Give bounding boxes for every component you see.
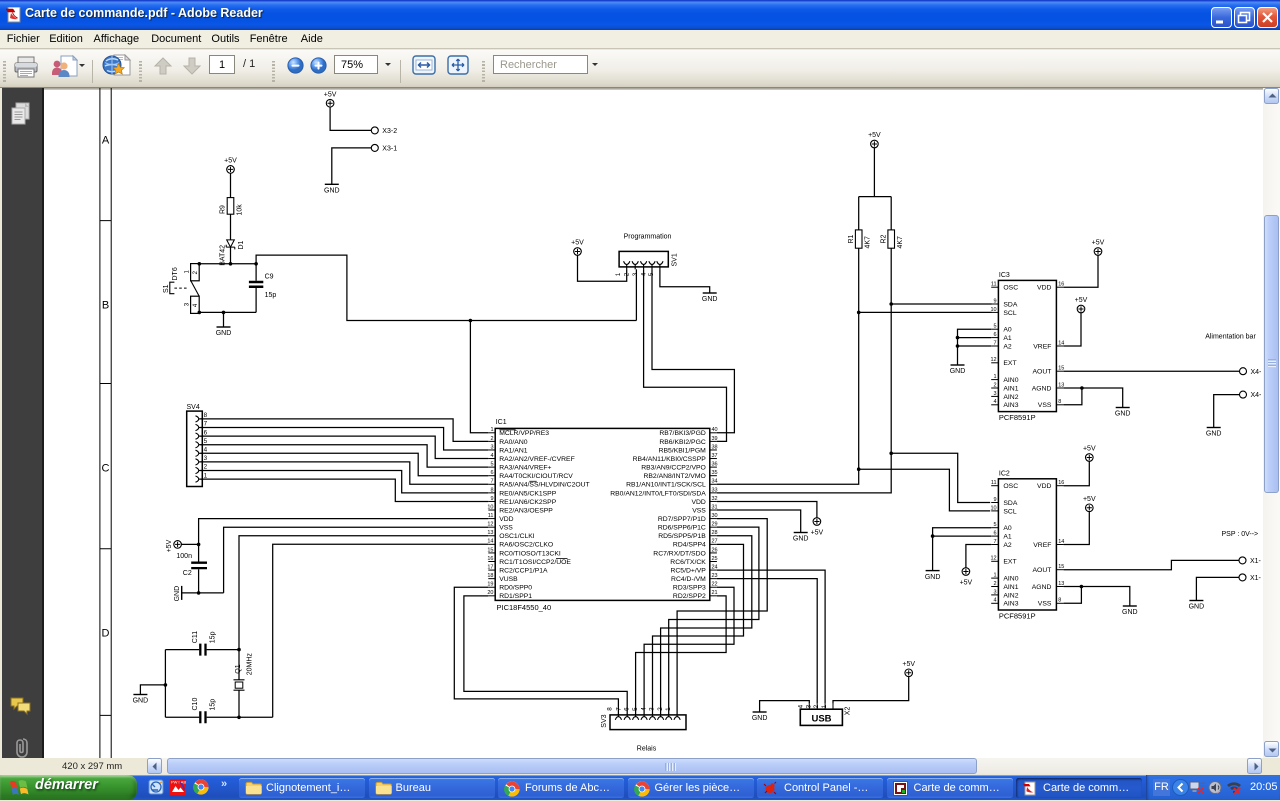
svg-text:15: 15 (1058, 366, 1064, 372)
wire switch top node (198, 262, 257, 266)
svg-text:RA5/AN4/SS/HLVDIN/C2OUT: RA5/AN4/SS/HLVDIN/C2OUT (499, 482, 590, 489)
vertical scrollbar (1263, 88, 1280, 758)
svg-text:3: 3 (490, 444, 493, 450)
svg-text:SV4: SV4 (187, 404, 200, 411)
wire C2 plates (198, 544, 200, 593)
svg-text:+5V: +5V (166, 539, 173, 552)
ground (IC3 A pins) (950, 365, 966, 375)
svg-text:1: 1 (204, 472, 208, 479)
svg-text:X3-1: X3-1 (382, 146, 397, 153)
power +5V (C2) (166, 539, 181, 552)
ground (X3) (324, 184, 340, 194)
wire C11 (165, 648, 240, 652)
svg-text:2: 2 (994, 581, 997, 587)
svg-text:PSP : 0V-->: PSP : 0V--> (1222, 531, 1259, 538)
svg-text:GND: GND (324, 188, 340, 195)
svg-text:AIN0: AIN0 (1003, 576, 1018, 583)
svg-text:Alimentation bar: Alimentation bar (1205, 334, 1256, 341)
svg-text:7: 7 (994, 340, 997, 346)
wire to ground (S1) (223, 312, 225, 327)
svg-text:RC1/T1OSI/CCP2/UOE: RC1/T1OSI/CCP2/UOE (499, 559, 571, 566)
svg-text:A: A (102, 135, 110, 147)
diode D1 (220, 240, 246, 266)
wire USB D- pin3 (717, 579, 817, 704)
svg-text:RB3/AN9/CCP2/VPO: RB3/AN9/CCP2/VPO (641, 465, 706, 472)
svg-text:35: 35 (712, 470, 718, 476)
svg-text:AIN3: AIN3 (1003, 601, 1018, 608)
svg-text:GND: GND (174, 586, 181, 602)
svg-text:C: C (102, 463, 110, 475)
svg-text:PW LAB: PW LAB (171, 780, 186, 785)
svg-text:5: 5 (204, 438, 208, 445)
svg-text:27: 27 (712, 539, 718, 545)
svg-text:2: 2 (204, 464, 208, 471)
ground (C2) (174, 586, 182, 602)
svg-text:A2: A2 (1003, 542, 1012, 549)
svg-text:DT6: DT6 (172, 267, 179, 280)
wire MCLR net (256, 255, 636, 433)
svg-text:AIN1: AIN1 (1003, 584, 1018, 591)
svg-text:16: 16 (487, 556, 493, 562)
wire X4-2 to GND (1214, 395, 1240, 428)
svg-text:GND: GND (950, 368, 966, 375)
ic IC3 PCF8591P (990, 272, 1064, 422)
wire USB pin1 to +5V (833, 676, 909, 704)
svg-text:VSS: VSS (1038, 402, 1052, 409)
svg-text:X2: X2 (845, 707, 852, 716)
svg-text:RA1/AN1: RA1/AN1 (499, 447, 528, 454)
ground (IC2 A pins) (925, 571, 941, 581)
svg-text:RB1/AN10/INT1/SCK/SCL: RB1/AN10/INT1/SCK/SCL (626, 482, 706, 489)
power +5V (USB) (902, 661, 915, 677)
wire IC1 RD0 to SV3 pin8 (454, 587, 618, 715)
svg-text:32: 32 (712, 496, 718, 502)
svg-text:R1: R1 (848, 234, 855, 243)
svg-text:RB4/AN11/KBI0/CSSPP: RB4/AN11/KBI0/CSSPP (633, 456, 707, 463)
wire D1 to node (229, 214, 233, 265)
svg-text:RA2/AN2/VREF-/CVREF: RA2/AN2/VREF-/CVREF (499, 456, 575, 463)
svg-text:PCF8591P: PCF8591P (999, 413, 1036, 422)
ground (SV1) (702, 293, 718, 303)
wire Q1 (237, 650, 241, 720)
wire +5V split (859, 147, 892, 230)
ground (IC1 VSS) (793, 533, 809, 543)
svg-text:RB5/KBI1/PGM: RB5/KBI1/PGM (659, 447, 707, 454)
svg-text:RC0/TIOSO/T13CKI: RC0/TIOSO/T13CKI (499, 550, 561, 557)
power +5V (IC3 VDD) (1092, 240, 1105, 256)
sidebar (0, 88, 44, 758)
svg-text:3: 3 (994, 391, 997, 397)
connector X4-2 (1240, 391, 1263, 399)
power +5V (IC2 A2) (960, 568, 973, 587)
svg-text:VUSB: VUSB (499, 576, 518, 583)
svg-text:VDD: VDD (499, 516, 513, 523)
wire IC2 VSS (1064, 587, 1082, 604)
svg-text:VREF: VREF (1033, 343, 1051, 350)
status row (0, 758, 1280, 775)
svg-text:RD0/SPP0: RD0/SPP0 (499, 585, 532, 592)
svg-text:X3-2: X3-2 (382, 128, 397, 135)
svg-text:VDD: VDD (1037, 285, 1051, 292)
svg-text:R2: R2 (881, 234, 888, 243)
svg-text:OSC: OSC (1003, 285, 1018, 292)
wire IC3 VREF (1064, 312, 1081, 346)
svg-text:RE2/AN3/OESPP: RE2/AN3/OESPP (499, 507, 553, 514)
svg-text:+5V: +5V (868, 132, 881, 139)
svg-text:15p: 15p (210, 699, 217, 711)
wire X1-2 to GND (1196, 577, 1239, 600)
svg-text:A0: A0 (1003, 525, 1012, 532)
svg-text:15p: 15p (210, 631, 217, 643)
svg-text:15: 15 (1058, 564, 1064, 570)
connector X4-1 (1240, 368, 1263, 376)
capacitor C9 (249, 274, 276, 299)
svg-text:AIN3: AIN3 (1003, 402, 1018, 409)
svg-text:GND: GND (1115, 411, 1131, 418)
wire IC3 VSS (1064, 388, 1082, 405)
power +5V (X3) (324, 91, 337, 107)
label Alimentation (1205, 334, 1256, 341)
svg-text:37: 37 (712, 453, 718, 459)
wire X3-1 to GND (332, 148, 371, 184)
svg-text:7: 7 (490, 479, 493, 485)
svg-text:3: 3 (632, 272, 639, 276)
svg-text:+5V: +5V (324, 91, 337, 98)
svg-text:8: 8 (1058, 399, 1061, 405)
svg-text:+5V: +5V (571, 240, 584, 247)
wire +5V to R9 (230, 173, 232, 197)
svg-text:GND: GND (133, 698, 149, 705)
svg-text:AIN2: AIN2 (1003, 394, 1018, 401)
svg-text:36: 36 (712, 462, 718, 468)
wire VSS IC1 pin12 (224, 527, 489, 593)
svg-text:8: 8 (490, 487, 493, 493)
power +5V (R9) (224, 158, 237, 174)
svg-text:B: B (102, 300, 109, 312)
menu bar (0, 30, 1280, 49)
svg-text:8: 8 (204, 412, 208, 419)
svg-text:EXT: EXT (1003, 360, 1016, 367)
svg-text:10: 10 (990, 505, 996, 511)
svg-text:8: 8 (607, 707, 614, 711)
wire to ground (Q1) (140, 685, 165, 695)
power +5V (SV1) (571, 240, 584, 256)
svg-text:15: 15 (487, 547, 493, 553)
svg-text:RA6/OSC2/CLKO: RA6/OSC2/CLKO (499, 542, 553, 549)
wire USB pin4 to GND (760, 701, 810, 712)
svg-text:IC3: IC3 (999, 272, 1010, 279)
wire C10 (165, 716, 272, 718)
svg-text:VDD: VDD (691, 499, 705, 506)
svg-text:MCLR/VPP/RE3: MCLR/VPP/RE3 (499, 430, 549, 437)
svg-text:SV3: SV3 (601, 714, 608, 727)
svg-text:AIN2: AIN2 (1003, 592, 1018, 599)
svg-text:A1: A1 (1003, 534, 1012, 541)
svg-text:X1-: X1- (1250, 558, 1262, 565)
svg-text:3: 3 (805, 704, 812, 708)
wire IC1 RD1 to SV3 pin7 (464, 596, 627, 715)
wire SDA net (717, 248, 992, 502)
svg-text:40: 40 (712, 427, 718, 433)
svg-text:RB6/KBI2/PGC: RB6/KBI2/PGC (659, 439, 706, 446)
svg-text:Programmation: Programmation (624, 233, 672, 240)
svg-text:2: 2 (490, 436, 493, 442)
svg-text:4: 4 (490, 453, 493, 459)
svg-text:GND: GND (752, 715, 768, 722)
svg-text:12: 12 (990, 357, 996, 363)
capacitor C2 (176, 553, 207, 577)
wires IC1 RD7-RD2 to SV3 (636, 519, 768, 715)
svg-text:11: 11 (991, 480, 997, 486)
svg-text:RD1/SPP1: RD1/SPP1 (499, 593, 532, 600)
wire IC3 A0 A1 A2 to GND (956, 329, 992, 365)
svg-text:SCL: SCL (1003, 310, 1016, 317)
svg-text:4: 4 (994, 399, 997, 405)
svg-text:4: 4 (797, 704, 804, 708)
ic IC2 PCF8591P (990, 471, 1064, 621)
wire SV1 pin3 to IC1 RB6 (644, 269, 727, 441)
svg-text:26: 26 (712, 547, 718, 553)
svg-text:X1-: X1- (1250, 575, 1262, 582)
ground (X1-2) (1189, 601, 1205, 611)
ground (IC3 AGND) (1115, 408, 1131, 418)
svg-text:RB2/AN8/INT2/VMO: RB2/AN8/INT2/VMO (643, 473, 705, 480)
wire IC2 A2 to +5V (966, 545, 991, 569)
svg-text:24: 24 (712, 564, 718, 570)
svg-text:RA3/AN4/VREF+: RA3/AN4/VREF+ (499, 465, 551, 472)
svg-text:SDA: SDA (1003, 301, 1017, 308)
svg-text:GND: GND (702, 296, 718, 303)
svg-text:IC2: IC2 (999, 471, 1010, 478)
svg-text:20MHz: 20MHz (246, 653, 253, 676)
connector X1-2 (1239, 574, 1262, 582)
wires SV4 to IC1 RA/RE pins (200, 419, 488, 502)
svg-text:BAT42: BAT42 (220, 245, 227, 266)
svg-text:AGND: AGND (1032, 385, 1052, 392)
svg-text:GND: GND (216, 330, 232, 337)
svg-text:AIN0: AIN0 (1003, 377, 1018, 384)
svg-text:6: 6 (490, 470, 493, 476)
svg-text:+5V: +5V (811, 529, 824, 536)
wire +5V node C2 (181, 543, 200, 547)
svg-text:RD6/SPP6/P1C: RD6/SPP6/P1C (658, 525, 706, 532)
svg-text:38: 38 (712, 444, 718, 450)
svg-text:RB0/AN12/INT0/LFT0/SDI/SDA: RB0/AN12/INT0/LFT0/SDI/SDA (610, 490, 706, 497)
svg-text:9: 9 (994, 497, 997, 503)
svg-text:GND: GND (1122, 609, 1138, 616)
svg-text:A0: A0 (1003, 327, 1012, 334)
svg-text:100n: 100n (176, 553, 192, 560)
svg-text:RC6/TX/CK: RC6/TX/CK (670, 559, 706, 566)
svg-text:5: 5 (994, 522, 997, 528)
svg-text:6: 6 (994, 531, 997, 537)
resistor R2 (881, 230, 905, 249)
wire SV1 pin5 to GND (660, 269, 710, 293)
svg-text:IC1: IC1 (496, 419, 507, 426)
svg-text:4: 4 (994, 598, 997, 604)
svg-text:C9: C9 (265, 274, 274, 281)
wire USB D+ pin2 (717, 570, 825, 704)
svg-text:3: 3 (204, 455, 208, 462)
svg-text:1: 1 (184, 270, 190, 274)
svg-text:4K7: 4K7 (865, 236, 872, 249)
schematic frame (100, 88, 111, 758)
svg-text:SCL: SCL (1003, 508, 1016, 515)
svg-text:PCF8591P: PCF8591P (999, 612, 1036, 621)
svg-text:16: 16 (1058, 480, 1064, 486)
svg-text:31: 31 (712, 504, 718, 510)
svg-text:+5V: +5V (1075, 297, 1088, 304)
ic IC1 PIC18F4550_40 (487, 419, 717, 612)
svg-text:D: D (102, 628, 110, 640)
capacitor C11 (192, 631, 217, 656)
svg-text:X4-: X4- (1251, 392, 1263, 399)
svg-text:RE1/AN6/CK2SPP: RE1/AN6/CK2SPP (499, 499, 557, 506)
svg-text:RD2/SPP2: RD2/SPP2 (673, 593, 706, 600)
title bar (0, 0, 1280, 30)
svg-text:OSC1/CLKI: OSC1/CLKI (499, 533, 535, 540)
wire IC2 VREF (1064, 511, 1090, 544)
svg-text:13: 13 (1058, 581, 1064, 587)
svg-text:33: 33 (712, 487, 718, 493)
svg-text:9: 9 (490, 496, 493, 502)
svg-text:AOUT: AOUT (1033, 369, 1052, 376)
connector X3-1 (371, 144, 397, 152)
svg-text:EXT: EXT (1003, 559, 1016, 566)
svg-text:RD5/SPP5/P1B: RD5/SPP5/P1B (658, 533, 706, 540)
connector SV4 (187, 404, 208, 487)
svg-text:RC7/RX/DT/SDO: RC7/RX/DT/SDO (653, 550, 706, 557)
wire IC2 AGND (1064, 585, 1130, 606)
svg-text:GND: GND (925, 574, 941, 581)
svg-text:RC2/CCP1/P1A: RC2/CCP1/P1A (499, 567, 548, 574)
svg-text:VSS: VSS (499, 525, 513, 532)
toolbar (0, 50, 1280, 88)
ground (USB) (752, 712, 768, 722)
svg-text:5: 5 (490, 462, 493, 468)
svg-text:GND: GND (1189, 604, 1205, 611)
svg-text:4K7: 4K7 (897, 236, 904, 249)
wire IC1 VSS pin31 (717, 510, 801, 532)
power +5V (IC2 VREF) (1083, 496, 1096, 512)
svg-text:3: 3 (994, 589, 997, 595)
svg-text:9: 9 (994, 298, 997, 304)
wire IC2 A0 A1 to GND (931, 528, 991, 571)
svg-text:29: 29 (712, 522, 718, 528)
system tray (1146, 775, 1280, 800)
wire IC3 VDD (1064, 255, 1098, 287)
svg-text:39: 39 (712, 436, 718, 442)
svg-text:X4-: X4- (1251, 369, 1263, 376)
wire OSC1 IC1 pin13 (239, 536, 488, 650)
wire crystal left (164, 650, 168, 718)
svg-text:10: 10 (487, 504, 493, 510)
svg-text:7: 7 (204, 421, 208, 428)
svg-text:GND: GND (1206, 431, 1222, 438)
svg-text:S1: S1 (163, 284, 170, 293)
svg-text:RA4/T0CKI/CIOUT/RCV: RA4/T0CKI/CIOUT/RCV (499, 473, 573, 480)
wire IC3 AGND (1064, 386, 1123, 407)
svg-text:1: 1 (994, 374, 997, 380)
wire SCL net (717, 248, 992, 511)
svg-text:3: 3 (184, 302, 190, 306)
svg-text:13: 13 (1058, 382, 1064, 388)
svg-text:RD3/SPP3: RD3/SPP3 (673, 585, 706, 592)
svg-text:30: 30 (712, 513, 718, 519)
ground (S1) (216, 327, 232, 337)
wire IC2 AOUT to X1-1 (1064, 560, 1239, 569)
svg-text:RC4/D-/VM: RC4/D-/VM (671, 576, 706, 583)
svg-text:R9: R9 (220, 205, 227, 214)
svg-text:10k: 10k (237, 204, 244, 216)
svg-text:+5V: +5V (902, 661, 915, 668)
svg-text:AOUT: AOUT (1033, 567, 1052, 574)
svg-text:1: 1 (994, 573, 997, 579)
svg-text:+5V: +5V (1083, 496, 1096, 503)
svg-text:1: 1 (821, 704, 828, 708)
svg-text:SV1: SV1 (672, 253, 679, 266)
svg-text:VSS: VSS (1038, 601, 1052, 608)
svg-text:14: 14 (1058, 539, 1064, 545)
wire IC2 VDD (1064, 461, 1090, 486)
connector SV1 (Programmation) (615, 233, 679, 276)
svg-text:D1: D1 (238, 240, 245, 249)
svg-text:4: 4 (204, 447, 208, 454)
svg-text:SDA: SDA (1003, 500, 1017, 507)
svg-text:34: 34 (712, 479, 718, 485)
svg-text:1: 1 (490, 427, 493, 433)
wire SV1 pin4 to IC1 RB7 (652, 269, 734, 433)
svg-text:PIC18F4550_40: PIC18F4550_40 (497, 603, 552, 612)
svg-text:15p: 15p (265, 292, 277, 299)
svg-text:GND: GND (793, 536, 809, 543)
power +5V (IC1 VDD) (811, 518, 824, 537)
connector X1-1 (1239, 557, 1262, 565)
wire SV1 pin1 to +5V (578, 255, 627, 281)
wire OSC2 IC1 pin14 (273, 544, 489, 717)
capacitor C10 (192, 698, 217, 724)
svg-text:12: 12 (990, 556, 996, 562)
power +5V (IC3 VREF) (1075, 297, 1088, 313)
svg-text:8: 8 (1058, 598, 1061, 604)
connector X3-2 (371, 127, 397, 135)
ground (X4-2) (1206, 428, 1222, 438)
svg-text:USB: USB (811, 714, 831, 725)
svg-text:28: 28 (712, 530, 718, 536)
svg-text:C10: C10 (192, 698, 199, 711)
svg-text:VDD: VDD (1037, 483, 1051, 490)
svg-text:6: 6 (204, 429, 208, 436)
svg-text:C11: C11 (192, 631, 199, 643)
svg-text:5: 5 (994, 324, 997, 330)
svg-text:16: 16 (1058, 282, 1064, 288)
svg-text:+5V: +5V (224, 158, 237, 165)
svg-text:+5V: +5V (1092, 240, 1105, 247)
svg-text:Relais: Relais (637, 746, 657, 753)
svg-text:AIN1: AIN1 (1003, 385, 1018, 392)
svg-text:22: 22 (712, 582, 718, 588)
connector X2 USB (797, 704, 851, 726)
svg-text:+5V: +5V (1083, 446, 1096, 453)
svg-text:OSC: OSC (1003, 483, 1018, 490)
svg-text:RB7/BKI3/PGD: RB7/BKI3/PGD (659, 430, 706, 437)
svg-text:+5V: +5V (960, 579, 973, 586)
svg-text:RA0/AN0: RA0/AN0 (499, 439, 528, 446)
svg-text:VREF: VREF (1033, 542, 1051, 549)
wire GND node C2 (182, 591, 224, 595)
svg-text:1: 1 (615, 272, 622, 276)
ground (Q1) (133, 695, 149, 705)
